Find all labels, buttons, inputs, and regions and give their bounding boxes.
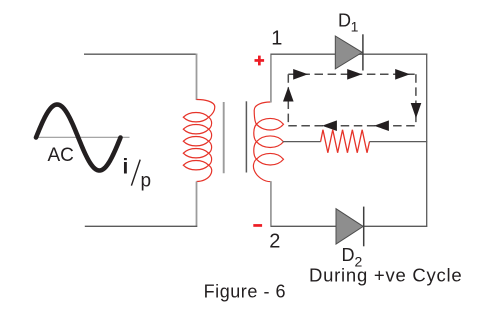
wire: right vertical [426,54,428,227]
polarity + (red) [255,56,265,66]
AC input sine wave [36,105,121,171]
svg-text:1: 1 [271,27,282,49]
diode D1 [335,34,363,70]
wire: top horizontal (node1 to right corner, through D1) [271,53,427,55]
label i/p [123,156,152,192]
dashed current path: top [288,73,416,75]
wire: primary bottom vertical [196,182,198,227]
dashed current path: bottom [288,125,416,127]
wire: AC source horizontal axis [36,136,130,138]
transformer primary winding [183,99,215,181]
current arrow right #1 (top left) [293,69,308,80]
current arrow left #1 (bottom left) [322,120,337,131]
svg-text:p: p [141,171,152,192]
current arrow left #2 (bottom right) [374,120,389,131]
transformer secondary winding [253,102,283,182]
current arrow up (left side) [283,87,294,102]
svg-text:1: 1 [351,19,359,35]
svg-text:During +ve Cycle: During +ve Cycle [309,264,462,285]
svg-text:Figure - 6: Figure - 6 [204,282,287,302]
label D1 [338,11,359,35]
svg-text:AC: AC [48,145,74,166]
wire: bottom horizontal (node2 to right corner, through D2) [271,225,427,227]
current arrow right #2 (top middle) [347,69,362,80]
svg-text:D: D [342,245,355,265]
wire: resistor to right vertical [369,141,427,143]
wire: secondary top vertical (node 1) [270,54,272,103]
transformer core line 1 [223,102,225,173]
dashed current path: right [415,74,417,125]
resistor RL [321,130,370,153]
label D2 [342,245,363,270]
wire: secondary bottom vertical (node 2) [270,181,272,227]
svg-text:2: 2 [269,230,280,252]
svg-text:i: i [123,156,129,179]
diode D2 [336,207,364,247]
polarity - (red) [253,224,262,227]
current arrow down (right side) [411,103,422,118]
wire: primary top horizontal [84,53,197,55]
transformer core line 2 [245,101,247,172]
dashed current path: left [287,74,289,125]
wire: primary top vertical [196,54,198,101]
current arrow right #3 (top right) [395,69,410,80]
wire: primary bottom horizontal [85,225,197,227]
wire: secondary center tap to resistor [283,141,321,143]
svg-text:D: D [338,11,351,31]
